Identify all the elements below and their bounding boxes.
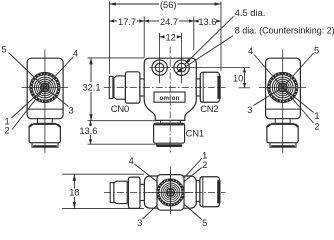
- pin leader 3 (left view): [45, 88, 69, 107]
- connector CN0 threaded barrel (front view): [114, 76, 126, 99]
- right view coupling nut: [267, 124, 298, 143]
- connector CN2 nut edge line: [202, 73, 204, 103]
- extension line y=120.6 (32.1 bottom / 13.6): [88, 120, 157, 122]
- svg-text:3: 3: [137, 218, 142, 228]
- right view neck ledge: [271, 122, 294, 124]
- dimension 12 ticks: [160, 33, 182, 41]
- extension line x=144.2: [143, 17, 145, 58]
- pin leader 1 (right view): [283, 88, 314, 113]
- left view connector neck: [38, 119, 53, 124]
- pin leader 1 (bottom view): [171, 159, 202, 193]
- dimension 13.6 left line: [90, 121, 92, 145]
- left view centerline vertical: [44, 50, 46, 154]
- svg-text:5: 5: [314, 45, 319, 55]
- hole right crosshair: [171, 41, 192, 84]
- dimension 18 line: [73, 174, 75, 208]
- pin leader 5 (bottom view): [171, 192, 202, 219]
- svg-text:1: 1: [314, 111, 319, 121]
- pin leader 5 (left view): [9, 53, 45, 88]
- bottom view CN2 nut edge line: [202, 177, 204, 207]
- svg-text:4: 4: [129, 156, 134, 166]
- connector CN2 body cylinder (front view): [200, 72, 219, 102]
- dimension 17.7 line: [109, 20, 144, 22]
- bottom view crosshair horizontal: [148, 191, 193, 193]
- pin leader 5 (right view): [283, 53, 314, 88]
- right view body: [266, 58, 301, 118]
- svg-text:CN2: CN2: [200, 103, 218, 114]
- bottom view CN1 boss: [157, 175, 184, 211]
- extension line y=57.9 (32.1 top): [88, 57, 145, 59]
- connector CN0 base step (front view): [140, 79, 144, 96]
- svg-text:omron: omron: [159, 95, 179, 102]
- svg-text:5: 5: [202, 218, 207, 228]
- connector face (left view): [31, 74, 59, 102]
- dimension 18 extension top: [62, 173, 144, 175]
- connector CN0 hex nut (front view): [125, 72, 139, 103]
- pin leader 4 (right view): [254, 55, 283, 88]
- bottom view CN0 plug tip: [110, 183, 114, 203]
- svg-text:2: 2: [314, 121, 319, 131]
- right view centerline horizontal: [259, 87, 306, 89]
- svg-text:5: 5: [2, 45, 7, 55]
- svg-text:3: 3: [69, 106, 74, 116]
- bottom view CN2 base step: [196, 181, 200, 202]
- svg-text:24.7: 24.7: [160, 17, 178, 27]
- svg-text:4: 4: [248, 46, 253, 56]
- pin leader 1 (left view): [12, 88, 45, 119]
- left view centerline horizontal: [22, 87, 69, 89]
- svg-text:18: 18: [69, 187, 79, 197]
- left view nut corner chamfer left: [29, 124, 32, 127]
- bottom view CN0 hex nut: [128, 177, 140, 208]
- svg-text:4: 4: [73, 49, 78, 59]
- dimension 32.1 line: [90, 58, 92, 121]
- right view end cap: [270, 143, 296, 147]
- pin leader 2 (left view): [12, 88, 45, 130]
- svg-text:(56): (56): [160, 0, 177, 10]
- dimension 10 tick bottom: [239, 87, 251, 89]
- pin leader 4 (bottom view): [135, 164, 171, 192]
- left view nut corner chamfer right: [57, 124, 60, 127]
- connector CN2 end dark band: [217, 76, 220, 99]
- pin leader 3 (right view): [254, 88, 283, 106]
- svg-text:13.6: 13.6: [79, 126, 97, 136]
- omron logo box: [154, 92, 185, 102]
- bottom view CN0 base step: [140, 184, 144, 200]
- dimension 13.6 top line: [194, 20, 221, 22]
- svg-text:32.1: 32.1: [82, 83, 100, 93]
- mounting hole right outer (8 dia.): [174, 60, 189, 75]
- dimension 10 extension line top: [193, 67, 251, 69]
- dimension 10 line: [244, 68, 246, 88]
- extension line x=109.4: [108, 2, 110, 75]
- connector CN1 neck (front view): [161, 120, 181, 123]
- centerline horizontal (front view): [104, 87, 226, 89]
- extension line x=193.8: [193, 17, 195, 51]
- dimension 24.7 line: [144, 20, 194, 22]
- hole left crosshair: [150, 41, 171, 84]
- right view end cap dark band: [271, 145, 295, 147]
- dimension (56) line: [109, 3, 221, 5]
- left view end cap: [32, 143, 58, 147]
- connector CN1 end cap dark band (front view): [156, 144, 182, 147]
- connector face (bottom view): [158, 180, 183, 205]
- mounting hole left inner (4.5 dia.): [155, 63, 164, 72]
- centerline vertical (front view): [169, 47, 171, 153]
- right view centerline vertical: [282, 50, 284, 154]
- pin leader 2 (bottom view): [171, 168, 202, 193]
- dimension 12 line: [160, 36, 182, 38]
- svg-text:4.5 dia.: 4.5 dia.: [235, 8, 265, 18]
- svg-text:3: 3: [247, 105, 252, 115]
- pin leader 2 (right view): [283, 88, 314, 124]
- svg-text:17.7: 17.7: [118, 17, 136, 27]
- svg-text:2: 2: [202, 160, 207, 170]
- left view end cap dark band: [33, 145, 57, 147]
- svg-text:CN1: CN1: [186, 128, 204, 139]
- pin leader 4 (left view): [45, 57, 74, 88]
- svg-text:12: 12: [166, 33, 176, 43]
- leader 8 dia.: [176, 36, 233, 73]
- mounting hole right inner (4.5 dia.): [177, 63, 186, 72]
- extension line x=221: [220, 2, 222, 71]
- connector CN1 coupling nut (front view): [154, 123, 185, 143]
- left view coupling nut: [29, 124, 60, 143]
- pin leader 3 (bottom view): [143, 192, 171, 219]
- svg-text:13.6: 13.6: [198, 17, 216, 27]
- left view body: [27, 58, 63, 118]
- bottom view body: [144, 176, 196, 208]
- right view nut corner chamfer left: [267, 124, 270, 127]
- svg-text:2: 2: [5, 126, 10, 136]
- left view flange line: [27, 108, 63, 110]
- bottom view crosshair vertical: [170, 170, 172, 214]
- extension line y=143.8 (13.6 bottom): [88, 143, 158, 145]
- mounting hole left outer (8 dia.): [152, 60, 167, 75]
- connector CN1 nut top band: [154, 124, 183, 126]
- bottom view CN2 end dark band: [217, 180, 220, 203]
- right view connector neck: [275, 119, 290, 124]
- leader 4.5 dia.: [185, 16, 234, 64]
- svg-text:CN0: CN0: [111, 103, 129, 114]
- svg-text:8 dia. (Countersinking: 2): 8 dia. (Countersinking: 2): [235, 25, 334, 35]
- bottom view centerline horizontal: [104, 191, 226, 193]
- dimension 18 extension bottom: [62, 208, 144, 210]
- connector CN2 base step (front view): [196, 79, 200, 96]
- connector CN0 plug tip (front view): [109, 76, 113, 98]
- bottom view CN0 threaded barrel: [114, 181, 127, 203]
- bottom view centerline vertical: [170, 167, 172, 216]
- bottom view CN2 body cylinder: [200, 177, 220, 207]
- right view nut corner chamfer right: [295, 124, 298, 127]
- left view neck ledge: [33, 122, 56, 124]
- connector face (right view): [269, 74, 297, 102]
- main body outline (front view): [144, 58, 196, 120]
- right view flange line: [266, 108, 301, 110]
- svg-text:10: 10: [233, 74, 243, 84]
